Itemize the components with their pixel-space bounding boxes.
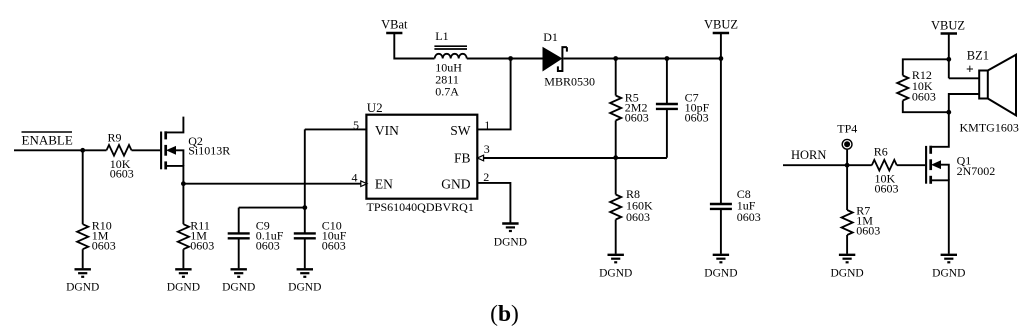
- resistor R10: [77, 150, 116, 268]
- node H (FB/R5/R8 junction): [613, 155, 618, 160]
- svg-text:VIN: VIN: [375, 123, 399, 138]
- svg-text:L1: L1: [435, 29, 448, 43]
- svg-text:GND: GND: [441, 176, 470, 191]
- svg-text:DGND: DGND: [167, 282, 200, 294]
- ground DGND (R11): [167, 269, 200, 293]
- ground DGND (C10): [288, 269, 321, 293]
- svg-text:KMTG1603: KMTG1603: [960, 121, 1019, 135]
- svg-text:D1: D1: [543, 30, 558, 44]
- resistor R8: [610, 158, 653, 254]
- node K (R12/BZ1-/Q1 drain junction): [946, 110, 951, 115]
- capacitor C8: [710, 59, 761, 254]
- transistor Q2: [161, 117, 230, 184]
- diode D1 MBR0530: [543, 30, 595, 88]
- svg-text:VBat: VBat: [381, 18, 408, 32]
- op-amp U2 (IC TPS61040QDBVRQ1): [366, 100, 477, 214]
- wire FB net: [483, 157, 667, 159]
- svg-text:(b): (b): [490, 301, 519, 327]
- power VBat: [381, 18, 434, 59]
- resistor R12: [897, 59, 949, 112]
- resistor R11: [178, 184, 215, 269]
- ground DGND (U2 pin 2): [494, 224, 527, 249]
- wire VIN pin 5: [305, 128, 367, 130]
- svg-text:TP4: TP4: [837, 121, 857, 135]
- buzzer BZ1 KMTG1603: [949, 49, 1019, 135]
- test point TP4: [837, 121, 857, 165]
- ground DGND (C9): [222, 269, 255, 293]
- svg-text:0603: 0603: [875, 182, 899, 196]
- resistor R6: [872, 144, 899, 195]
- svg-text:0.7A: 0.7A: [435, 85, 459, 99]
- resistor R5: [610, 59, 649, 158]
- svg-text:0603: 0603: [92, 239, 116, 253]
- svg-text:0603: 0603: [322, 239, 346, 253]
- svg-text:MBR0530: MBR0530: [544, 74, 595, 88]
- net label ENABLE: [22, 132, 73, 148]
- ground DGND (Q1): [932, 255, 965, 280]
- svg-text:SW: SW: [450, 123, 471, 138]
- node J (VBUZ/R12/BZ1+ junction): [946, 57, 951, 62]
- ground DGND (R8): [599, 255, 632, 280]
- svg-text:+: +: [966, 62, 974, 77]
- svg-text:0603: 0603: [912, 89, 936, 103]
- svg-text:EN: EN: [375, 176, 393, 191]
- inductor L1: [434, 29, 467, 99]
- svg-text:DGND: DGND: [830, 268, 863, 280]
- svg-text:FB: FB: [454, 151, 471, 166]
- svg-text:0603: 0603: [625, 111, 649, 125]
- svg-text:4: 4: [352, 171, 358, 185]
- capacitor C7: [656, 59, 710, 158]
- svg-text:ENABLE: ENABLE: [22, 133, 73, 148]
- svg-text:DGND: DGND: [222, 282, 255, 294]
- node F (C7 top): [665, 56, 670, 61]
- svg-text:TPS61040QDBVRQ1: TPS61040QDBVRQ1: [367, 200, 474, 214]
- svg-text:DGND: DGND: [599, 268, 632, 280]
- svg-text:VBUZ: VBUZ: [704, 18, 738, 32]
- ground DGND (R7): [830, 255, 863, 280]
- svg-text:0603: 0603: [685, 111, 709, 125]
- svg-text:0603: 0603: [110, 167, 134, 181]
- ground DGND (R10): [66, 269, 99, 293]
- wire ENABLE input: [14, 149, 107, 151]
- svg-text:VBUZ: VBUZ: [931, 19, 965, 33]
- wire VIN branch vertical: [304, 129, 306, 207]
- svg-text:3: 3: [484, 142, 490, 156]
- svg-text:BZ1: BZ1: [967, 49, 989, 63]
- svg-text:DGND: DGND: [932, 268, 965, 280]
- wire D1 to VBUZ rail: [564, 58, 721, 60]
- wire GND pin 2: [477, 183, 510, 223]
- svg-text:2N7002: 2N7002: [957, 164, 996, 178]
- pin FB input arrow: [477, 155, 483, 161]
- wire R9 to Q2 gate: [132, 149, 161, 151]
- svg-text:5: 5: [353, 118, 359, 132]
- wire SW pin 1: [477, 59, 510, 129]
- node G (VBUZ/C8 top): [719, 56, 724, 61]
- capacitor C9: [228, 208, 284, 269]
- svg-text:HORN: HORN: [791, 148, 826, 162]
- wire EN net (Q2 to U2 EN pin): [183, 183, 366, 185]
- svg-text:U2: U2: [367, 100, 383, 115]
- svg-text:DGND: DGND: [288, 282, 321, 294]
- wire R6 to Q1 gate: [897, 164, 925, 166]
- wire C9/C10 top rail: [239, 207, 305, 209]
- transistor Q1: [926, 112, 995, 254]
- svg-text:0603: 0603: [256, 239, 280, 253]
- power VBUZ (right): [931, 19, 965, 79]
- ground DGND (C8): [704, 255, 737, 280]
- resistor R9: [107, 131, 134, 181]
- node C (C9/C10/VIN junction): [302, 205, 307, 210]
- svg-text:DGND: DGND: [704, 268, 737, 280]
- power VBUZ (mid): [704, 18, 738, 59]
- svg-text:2: 2: [483, 170, 489, 184]
- capacitor C10: [294, 208, 347, 269]
- svg-text:Si1013R: Si1013R: [188, 144, 230, 158]
- svg-text:R6: R6: [874, 144, 888, 158]
- svg-text:0603: 0603: [190, 239, 214, 253]
- node E (R5 top): [613, 56, 618, 61]
- resistor R7: [841, 165, 880, 254]
- svg-text:0603: 0603: [737, 210, 761, 224]
- svg-text:R9: R9: [108, 131, 122, 145]
- svg-text:0603: 0603: [626, 210, 650, 224]
- wire HORN: [783, 164, 872, 166]
- node B (Q2 drain / R11 / EN junction): [181, 181, 186, 186]
- node I (HORN/TP4/R6/R7 junction): [845, 163, 850, 168]
- node D (L1/D1/SW junction): [508, 56, 513, 61]
- pin EN input arrow: [361, 181, 367, 187]
- svg-text:DGND: DGND: [66, 282, 99, 294]
- svg-text:DGND: DGND: [494, 237, 527, 249]
- node A (ENABLE/R9/R10 junction): [80, 148, 85, 153]
- wire L1 to D1: [467, 58, 543, 60]
- svg-text:0603: 0603: [856, 224, 880, 238]
